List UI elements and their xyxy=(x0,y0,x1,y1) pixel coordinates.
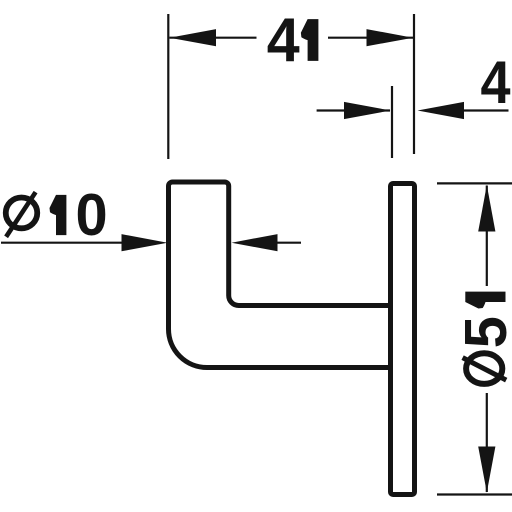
arrowhead diameter 51 bottom (points down) xyxy=(478,447,495,493)
arrowhead 41 right xyxy=(367,29,414,46)
svg-text:5: 5 xyxy=(453,316,512,348)
label diameter 10 symbol circle xyxy=(6,198,38,229)
dimension line diameter 51 lower segment xyxy=(486,393,488,492)
dimension line 4 left shaft xyxy=(317,109,390,111)
extension line bottom (diameter 51) xyxy=(437,493,512,495)
arrowhead 41 left xyxy=(170,29,217,46)
arrowhead 4 right xyxy=(418,102,465,119)
arrowhead 4 left xyxy=(344,102,391,119)
extension line left (41) xyxy=(167,14,169,159)
arrowhead diameter 10 right (points left) xyxy=(232,234,278,251)
svg-text:0: 0 xyxy=(76,183,108,249)
svg-text:4: 4 xyxy=(267,5,300,75)
extension line right (41 / 4) xyxy=(413,14,415,154)
hook profile (rod side view) xyxy=(169,182,391,368)
dimension line 41 right segment xyxy=(328,37,413,39)
arrowhead diameter 51 top (points up) xyxy=(478,185,495,232)
label 41 digit 1 (custom glyph) xyxy=(301,19,319,61)
dimension line 4 right shaft xyxy=(464,109,509,111)
svg-text:4: 4 xyxy=(480,49,510,116)
extension line left (4) xyxy=(391,86,393,158)
leader line diameter 10 xyxy=(1,242,126,244)
label diameter 51 symbol slash (rotated) xyxy=(463,358,507,381)
dimension line 41 left segment xyxy=(170,37,257,39)
mounting plate xyxy=(391,184,415,495)
label diameter 10 symbol slash xyxy=(6,192,35,237)
arrowhead diameter 10 left (points right) xyxy=(122,234,168,251)
label diameter 51 digit 1 (rotated custom glyph) xyxy=(465,292,505,309)
dimension line diameter 10 right shaft xyxy=(278,242,302,244)
label diameter 10 digit 1 (custom glyph) xyxy=(50,195,67,235)
extension line top (diameter 51) xyxy=(437,182,512,184)
label diameter 51 symbol circle (rotated) xyxy=(466,353,502,384)
dimension line diameter 51 upper segment xyxy=(486,186,488,287)
